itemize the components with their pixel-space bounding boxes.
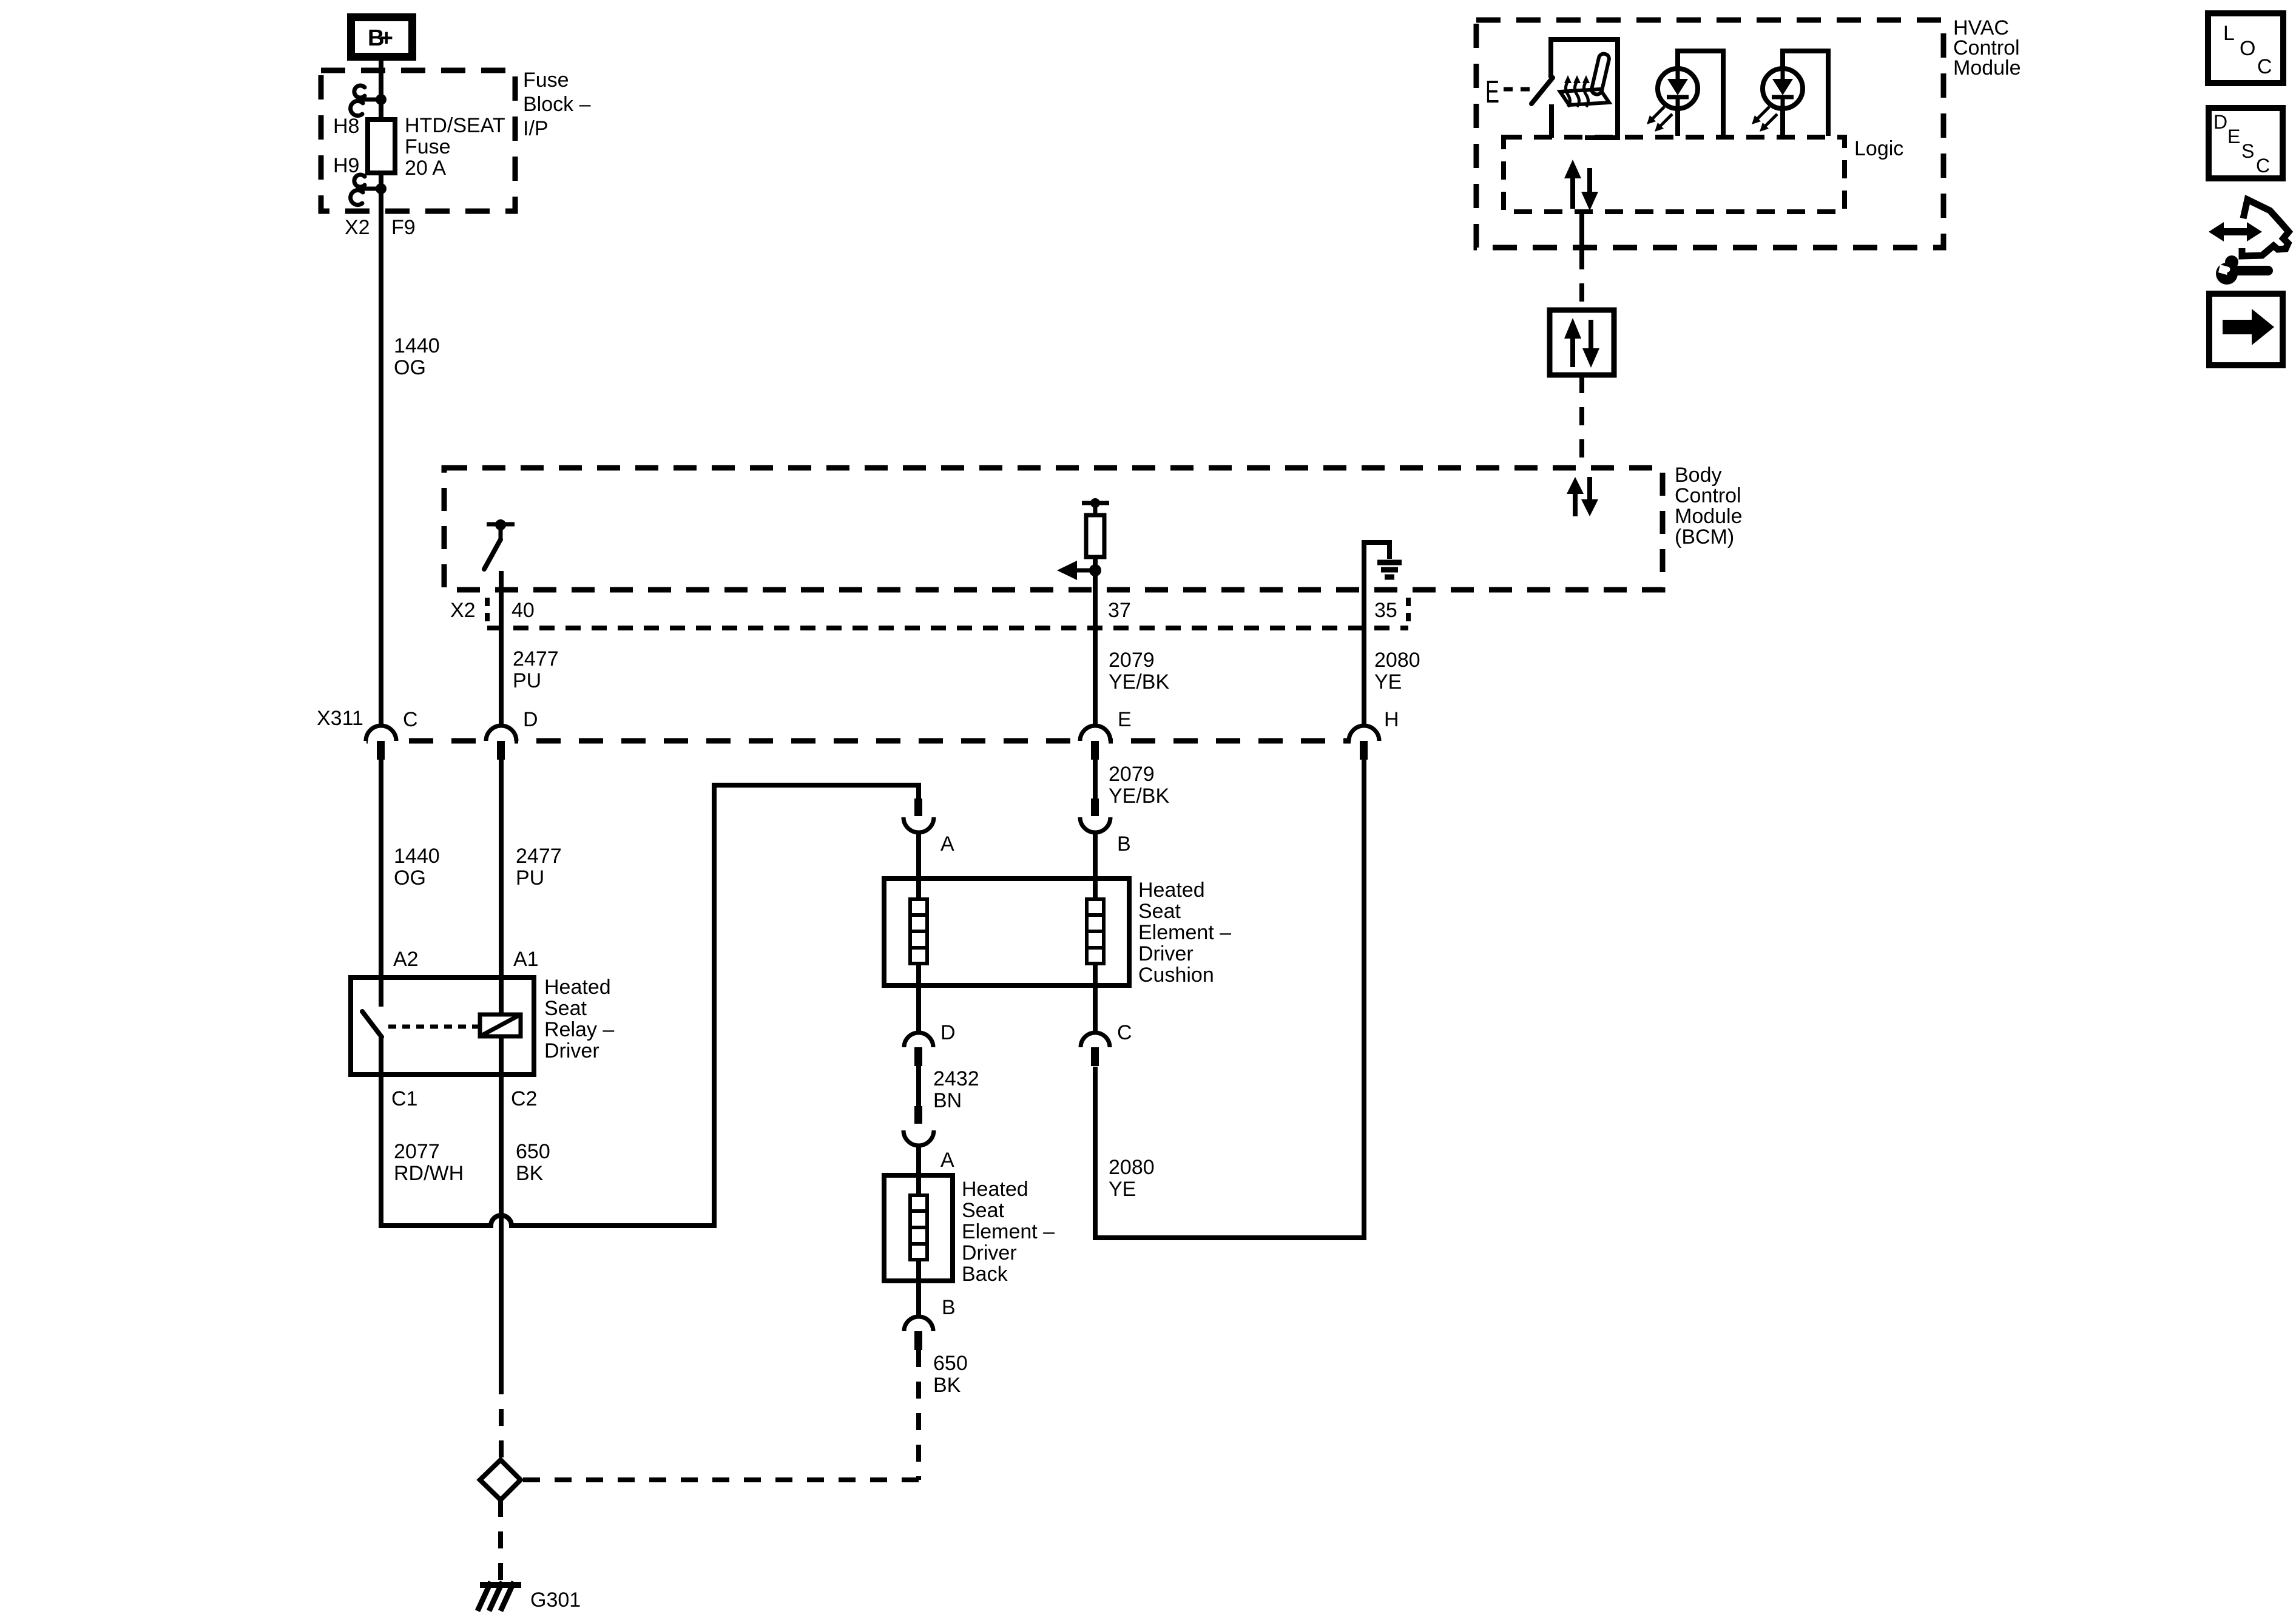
indicator LED 1 [1647, 51, 1723, 136]
wire pin37 to X311 E [1093, 590, 1098, 727]
svg-text:S: S [2241, 140, 2254, 162]
svg-text:B: B [1117, 832, 1131, 856]
svg-text:2077: 2077 [394, 1140, 440, 1163]
BCM X2 connector row [487, 598, 1408, 628]
svg-text:40: 40 [512, 599, 535, 622]
heated seat icon [1560, 53, 1610, 107]
wire X311 C to relay A2 [379, 760, 383, 977]
svg-text:1440: 1440 [394, 334, 440, 357]
svg-text:Element –: Element – [962, 1220, 1055, 1243]
svg-text:F9: F9 [391, 216, 416, 239]
svg-text:E: E [1485, 75, 1499, 110]
BCM sense resistor pin 37 [1057, 498, 1109, 590]
svg-text:Element –: Element – [1138, 921, 1231, 944]
wire dashed E to switch [1504, 87, 1531, 92]
indicator LED 2 [1752, 51, 1828, 136]
svg-text:I/P: I/P [523, 117, 549, 140]
wire label 1440 OG [394, 334, 440, 379]
svg-text:A: A [940, 1149, 954, 1172]
svg-text:2080: 2080 [1374, 649, 1420, 672]
relay contact switch [362, 977, 382, 1075]
svg-text:L: L [2223, 22, 2235, 45]
svg-text:YE: YE [1109, 1178, 1136, 1201]
svg-text:2477: 2477 [513, 647, 559, 670]
fuse clip lower [351, 175, 381, 205]
wire relay C1 down [379, 1075, 383, 1228]
svg-text:Heated: Heated [962, 1178, 1028, 1201]
fuse HTD/SEAT 20A [368, 120, 395, 173]
svg-text:PU: PU [513, 669, 541, 692]
svg-text:Module: Module [1675, 505, 1743, 528]
svg-text:C: C [2256, 155, 2270, 177]
icon forward arrow [2209, 294, 2283, 365]
svg-text:1440: 1440 [394, 845, 440, 868]
BCM internal ground pin 35 [1364, 542, 1402, 590]
svg-text:C1: C1 [391, 1087, 417, 1110]
logic up arrow [1564, 160, 1581, 209]
logic down arrow [1581, 168, 1598, 211]
svg-text:Body: Body [1675, 464, 1722, 487]
svg-text:Seat: Seat [1138, 900, 1181, 923]
icon DESC [2209, 108, 2283, 178]
svg-text:BN: BN [933, 1089, 962, 1112]
icon adjust with wrench [2209, 200, 2289, 285]
wire X311 H down and left to element C [1095, 760, 1364, 1238]
svg-text:H8: H8 [333, 115, 359, 138]
svg-text:2477: 2477 [516, 845, 562, 868]
B+ battery feed box [347, 13, 416, 61]
splice diamond [480, 1460, 521, 1500]
back element connector B [904, 1281, 956, 1350]
svg-text:Driver: Driver [544, 1039, 599, 1062]
wire D to back element A, label 2432 BN [916, 1066, 921, 1106]
wire C2 dashed to splice [499, 1377, 504, 1460]
fuse clip upper [351, 86, 381, 116]
junction dot H9 [376, 183, 387, 194]
svg-text:Module: Module [1953, 56, 2021, 79]
X311 pin H [1349, 708, 1399, 760]
svg-text:BK: BK [933, 1374, 961, 1397]
svg-text:PU: PU [516, 866, 544, 890]
svg-text:Logic: Logic [1854, 137, 1903, 160]
svg-text:OG: OG [394, 356, 426, 379]
heated seat switch blade [1531, 78, 1553, 104]
BCM serial arrows [1567, 477, 1598, 516]
svg-text:A: A [940, 832, 954, 856]
wire fuse to X311 pin C [379, 211, 383, 727]
HVAC control module dashed box [1476, 20, 1943, 248]
connector labels X2 F9 [345, 216, 416, 239]
svg-text:O: O [2240, 37, 2255, 60]
svg-text:OG: OG [394, 866, 426, 890]
svg-text:Heated: Heated [1138, 879, 1205, 902]
dashed wire splice to ground [498, 1500, 503, 1580]
icon LOC [2208, 13, 2283, 83]
svg-text:Cushion: Cushion [1138, 964, 1214, 987]
svg-text:G301: G301 [530, 1588, 581, 1612]
heated seat element driver cushion box [884, 879, 1129, 985]
svg-text:Relay –: Relay – [544, 1018, 614, 1041]
svg-text:Fuse: Fuse [523, 69, 569, 92]
wire serial box to BCM [1579, 375, 1584, 468]
svg-text:Back: Back [962, 1263, 1008, 1286]
bottom feed wire with hop over C2 wire [381, 785, 919, 1226]
ground G301 [478, 1582, 581, 1612]
heated seat element driver back box [884, 1175, 953, 1281]
wire X311 D to relay A1 [499, 760, 504, 977]
svg-text:37: 37 [1108, 599, 1131, 622]
X311 pin D [486, 708, 538, 760]
svg-text:C: C [2257, 55, 2272, 78]
wire B+ to fuse block [379, 61, 383, 120]
wire logic to serial data box [1579, 212, 1584, 251]
svg-text:20 A: 20 A [405, 157, 446, 180]
element connector D [904, 985, 956, 1066]
heated seat switch box [1551, 39, 1618, 138]
svg-text:Seat: Seat [962, 1199, 1004, 1222]
svg-text:650: 650 [933, 1352, 968, 1375]
relay pin labels [391, 948, 539, 1110]
svg-text:H: H [1384, 708, 1399, 731]
junction dot H8 [376, 94, 387, 105]
body control module dashed box [444, 468, 1663, 590]
svg-text:H9: H9 [333, 154, 359, 177]
svg-text:2432: 2432 [933, 1067, 979, 1090]
svg-text:A2: A2 [393, 948, 419, 971]
X311 connector row [366, 738, 1383, 744]
svg-text:X2: X2 [450, 599, 476, 622]
relay coil [480, 977, 521, 1075]
svg-text:D: D [2213, 111, 2227, 133]
wire pin40 to X311 D [499, 590, 504, 727]
svg-text:Driver: Driver [1138, 942, 1194, 965]
svg-text:X2: X2 [345, 216, 370, 239]
svg-text:650: 650 [516, 1140, 550, 1163]
X311 pin C [366, 708, 418, 760]
dashed wire to splice [521, 1477, 919, 1482]
svg-text:C: C [1117, 1021, 1132, 1044]
svg-text:2080: 2080 [1109, 1156, 1155, 1179]
svg-text:E: E [1118, 708, 1132, 731]
svg-text:(BCM): (BCM) [1675, 525, 1734, 549]
BCM driver switch pin 40 [484, 519, 515, 590]
svg-text:YE/BK: YE/BK [1109, 785, 1169, 808]
svg-text:A1: A1 [513, 948, 539, 971]
svg-text:Seat: Seat [544, 997, 587, 1020]
svg-text:Heated: Heated [544, 976, 611, 999]
X311 pin E [1080, 708, 1132, 760]
svg-text:D: D [523, 708, 538, 731]
relay actuator dashed link [388, 1025, 478, 1029]
logic dashed box [1504, 137, 1845, 212]
wire through fuse [379, 173, 383, 211]
fuse block dashed box [321, 70, 515, 211]
svg-text:B: B [942, 1296, 956, 1319]
wire pin35 to X311 H [1362, 590, 1366, 727]
svg-text:YE: YE [1374, 670, 1402, 694]
svg-text:RD/WH: RD/WH [394, 1162, 464, 1185]
svg-text:2079: 2079 [1109, 763, 1155, 786]
svg-text:HTD/SEAT: HTD/SEAT [405, 114, 505, 137]
svg-text:E: E [2227, 126, 2240, 147]
svg-text:Driver: Driver [962, 1241, 1017, 1264]
wire relay C2 down [499, 1075, 504, 1377]
element connector A [903, 798, 954, 879]
wire B to splice, label 650 BK [916, 1350, 921, 1480]
svg-text:X311: X311 [317, 707, 363, 730]
heated seat relay driver box [351, 977, 534, 1075]
svg-text:Control: Control [1675, 484, 1741, 507]
svg-text:B+: B+ [368, 25, 393, 51]
svg-text:BK: BK [516, 1162, 544, 1185]
svg-text:C2: C2 [511, 1087, 537, 1110]
svg-text:D: D [940, 1021, 956, 1044]
wire X311 E to element B [1093, 760, 1098, 800]
svg-text:Block –: Block – [523, 93, 591, 116]
svg-text:Fuse: Fuse [405, 135, 451, 158]
svg-text:35: 35 [1374, 599, 1397, 622]
serial data box [1550, 310, 1614, 375]
svg-text:2079: 2079 [1109, 649, 1155, 672]
element connector C [1081, 985, 1132, 1066]
svg-text:C: C [403, 708, 418, 731]
back element connector A [903, 1106, 954, 1175]
element connector B [1080, 798, 1131, 879]
svg-text:YE/BK: YE/BK [1109, 670, 1169, 694]
label Fuse Block I/P [523, 69, 591, 140]
